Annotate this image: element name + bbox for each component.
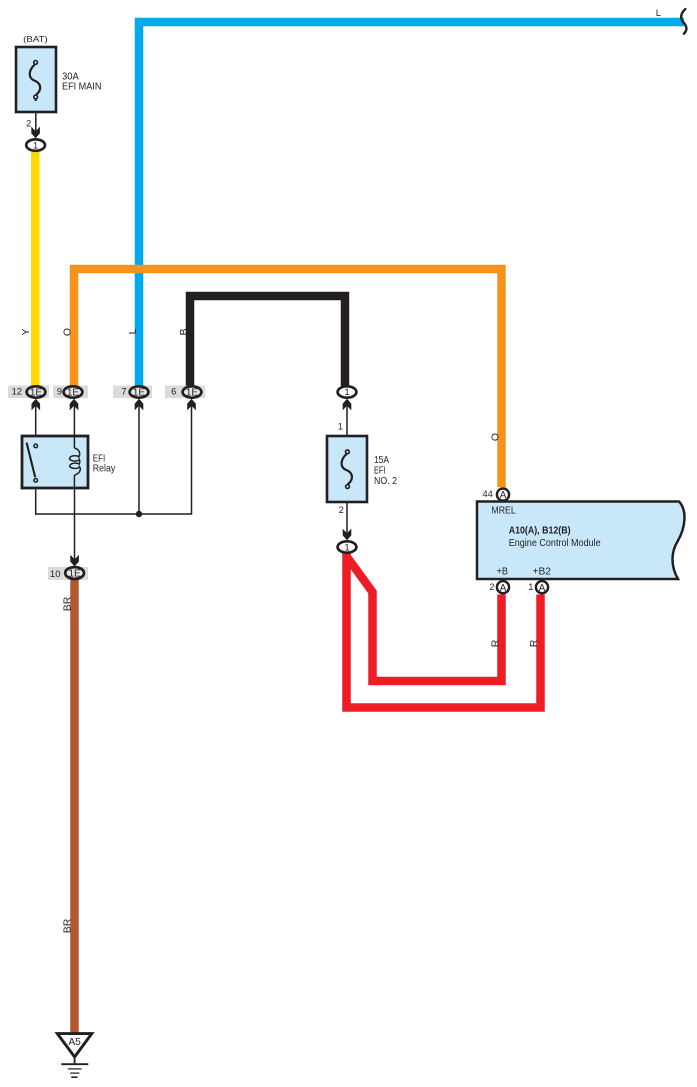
svg-text:Engine Control Module: Engine Control Module — [509, 538, 601, 549]
ground bars — [61, 1063, 88, 1065]
connector 1 oval above F2 — [338, 386, 357, 397]
connector 12(1E) — [8, 386, 49, 399]
svg-text:A10(A), B12(B): A10(A), B12(B) — [509, 526, 571, 537]
svg-text:Y: Y — [20, 328, 32, 335]
fuse F2 element — [342, 454, 352, 484]
svg-text:7: 7 — [121, 386, 126, 396]
svg-text:1E: 1E — [186, 387, 199, 398]
svg-text:1: 1 — [344, 387, 349, 398]
wire BR brown — [70, 580, 79, 1033]
ground stem — [74, 1057, 76, 1063]
arrowhead down into 10(1E) — [70, 555, 79, 567]
wire L blue horizontal+vertical — [139, 22, 684, 386]
svg-text:MREL: MREL — [491, 505, 516, 516]
wire B black — [190, 296, 345, 386]
wire thin relay pin top-left to 12(1E) — [35, 406, 37, 437]
svg-text:L: L — [127, 328, 139, 334]
connector 1 oval below F1 — [26, 139, 45, 150]
svg-text:(BAT): (BAT) — [23, 34, 48, 44]
arrowhead up into 12(1E) — [32, 399, 41, 411]
svg-text:R: R — [528, 639, 540, 647]
arrowhead up into connector 1 (above F2) — [343, 399, 352, 411]
svg-text:A: A — [500, 583, 507, 594]
connector 6(1E) — [165, 386, 205, 399]
svg-text:10: 10 — [50, 569, 61, 580]
svg-text:44: 44 — [482, 489, 492, 499]
wire thin fuse F1 pin2 lead — [35, 100, 37, 132]
wire thin horizontal bus y514 — [35, 513, 192, 515]
arrowhead down into connector 1 (below F2) — [343, 529, 352, 541]
junction dot at 139,514 — [136, 511, 142, 517]
wire thin relay switch bottom down — [35, 488, 37, 515]
svg-text:O: O — [62, 328, 74, 336]
pin 1 A circle +B2 — [536, 581, 548, 593]
wire thin relay coil bottom to 10(1E) — [74, 488, 76, 560]
arrowhead down into connector 1 (below F1) — [31, 127, 40, 139]
svg-text:2: 2 — [339, 505, 344, 515]
wire thin fuse F2 bottom lead — [346, 490, 348, 534]
svg-text:EFI MAIN: EFI MAIN — [62, 81, 101, 92]
svg-text:12: 12 — [12, 386, 22, 396]
connector 9(1E) — [53, 386, 88, 399]
wire break squiggle top right — [681, 9, 686, 34]
svg-text:A5: A5 — [68, 1037, 81, 1048]
svg-text:BR: BR — [62, 596, 74, 611]
fuse F1 element — [30, 65, 40, 100]
svg-text:A: A — [539, 583, 546, 594]
fuse F1 30A EFI MAIN box — [16, 47, 56, 112]
svg-text:A: A — [500, 490, 507, 501]
svg-text:1: 1 — [338, 421, 343, 431]
wire thin from 6(1E) down — [191, 406, 193, 515]
svg-text:NO. 2: NO. 2 — [374, 476, 397, 487]
connector 7(1E) — [113, 386, 152, 399]
svg-text:6: 6 — [171, 386, 176, 396]
svg-text:+B: +B — [497, 566, 509, 577]
svg-text:15A: 15A — [374, 455, 389, 466]
svg-text:1: 1 — [33, 141, 38, 152]
relay switch contacts — [34, 444, 38, 448]
pin 44 A circle MREL — [497, 489, 509, 501]
svg-text:B: B — [178, 328, 190, 335]
svg-text:+B2: +B2 — [533, 566, 552, 577]
svg-text:2: 2 — [489, 582, 494, 592]
svg-text:1E: 1E — [30, 387, 43, 398]
svg-text:L: L — [656, 8, 661, 19]
wire thin fuse F2 top lead — [346, 406, 348, 450]
connector 1 oval below F2 — [338, 541, 357, 552]
svg-text:1E: 1E — [68, 568, 81, 579]
connector 10(1E) — [48, 567, 88, 580]
svg-text:1: 1 — [528, 582, 533, 592]
svg-text:9: 9 — [57, 386, 62, 396]
relay U1 EFI Relay box — [22, 436, 88, 488]
fuse F2 15A EFI NO.2 box — [327, 436, 367, 502]
wire Y yellow — [31, 152, 40, 386]
wire R red to +B — [347, 557, 502, 681]
svg-text:BR: BR — [62, 918, 74, 933]
arrowhead up into 9(1E) — [70, 399, 79, 411]
svg-text:1E: 1E — [67, 387, 80, 398]
svg-text:1E: 1E — [133, 387, 146, 398]
wire thin from 7(1E) down — [138, 406, 140, 515]
wire thin relay coil top to 9(1E) — [73, 406, 75, 437]
svg-text:Relay: Relay — [93, 464, 116, 475]
arrowhead up into 6(1E) — [187, 399, 196, 411]
relay switch blade — [27, 443, 36, 478]
wire O orange — [74, 269, 502, 487]
svg-text:EFI: EFI — [374, 465, 386, 476]
ECM box Engine Control Module — [477, 502, 684, 580]
wire R red to +B2 — [347, 553, 541, 708]
svg-text:O: O — [490, 433, 502, 441]
svg-text:1: 1 — [344, 542, 349, 553]
pin 2 A circle +B — [497, 581, 509, 593]
svg-text:2: 2 — [26, 118, 31, 128]
arrowhead up into 7(1E) — [135, 399, 144, 411]
ground A5 triangle — [57, 1034, 92, 1057]
svg-text:R: R — [490, 639, 502, 647]
relay coil — [73, 436, 75, 448]
